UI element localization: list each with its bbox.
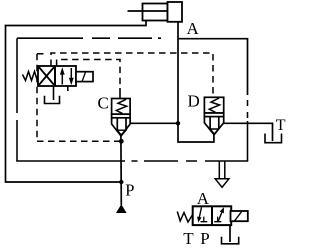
junction node C bottom / dashed box xyxy=(119,139,124,144)
spring xyxy=(177,212,192,223)
pilot line from valve W top port to cartridge C xyxy=(57,60,120,89)
up arrow xyxy=(61,72,63,85)
pilot line from valve W top port to cartridge D xyxy=(51,53,213,97)
wire cylinder rod-side port down-left-around to P junction xyxy=(6,21,147,183)
pump source triangle xyxy=(116,204,127,213)
tank T xyxy=(265,134,282,143)
cylinder xyxy=(128,2,183,22)
junction node on P wire xyxy=(119,180,123,184)
spring xyxy=(23,72,39,81)
svg-text:A: A xyxy=(197,189,210,208)
tank stub under valve W xyxy=(53,86,55,100)
wire from node A to right side down across T line xyxy=(178,39,248,95)
cartridge valve C xyxy=(98,93,131,135)
tank under bottom valve xyxy=(222,237,239,244)
bottom-right 3/2 solenoid valve xyxy=(177,206,248,225)
enclosure manifold block dash-dot box bottom edge xyxy=(16,160,248,162)
tank under valve W xyxy=(45,96,60,104)
drain wire to tank xyxy=(229,225,231,242)
solenoid xyxy=(231,211,248,221)
left position: arrow down + blocked port xyxy=(199,207,201,217)
pilot line enclosure (dashed box) bottom edge xyxy=(37,140,121,142)
down arrow xyxy=(70,68,72,81)
wire P line xyxy=(120,136,122,205)
port stub below valve W right square xyxy=(67,86,69,91)
crossed position X xyxy=(38,66,55,86)
enclosure manifold block dash-dot box right edge dashes xyxy=(247,100,249,118)
enclosure manifold block dash-dot box left edge xyxy=(16,38,18,161)
wire D side port to tank T xyxy=(224,123,273,141)
svg-text:P: P xyxy=(200,229,209,248)
junction node on A line xyxy=(176,121,180,125)
svg-text:A: A xyxy=(187,19,200,38)
pilot line enclosure (dashed box) left edge xyxy=(37,54,47,141)
wire C side port to node A xyxy=(130,122,178,124)
svg-text:D: D xyxy=(188,92,200,111)
wire node A vertical line from cylinder down, loop to D bottom xyxy=(178,22,214,142)
enclosure manifold block dash-dot box top edge xyxy=(17,37,161,39)
cartridge valve D xyxy=(188,92,224,135)
solenoid xyxy=(76,72,93,82)
svg-text:C: C xyxy=(98,93,109,112)
right position: blocked port + arrow up xyxy=(214,217,221,222)
flow arrow (hollow, downward) xyxy=(215,162,229,188)
svg-text:T: T xyxy=(276,117,286,134)
svg-text:T: T xyxy=(183,229,194,248)
pilot valve W (solenoid directional valve) xyxy=(23,66,94,86)
svg-text:P: P xyxy=(125,181,134,200)
